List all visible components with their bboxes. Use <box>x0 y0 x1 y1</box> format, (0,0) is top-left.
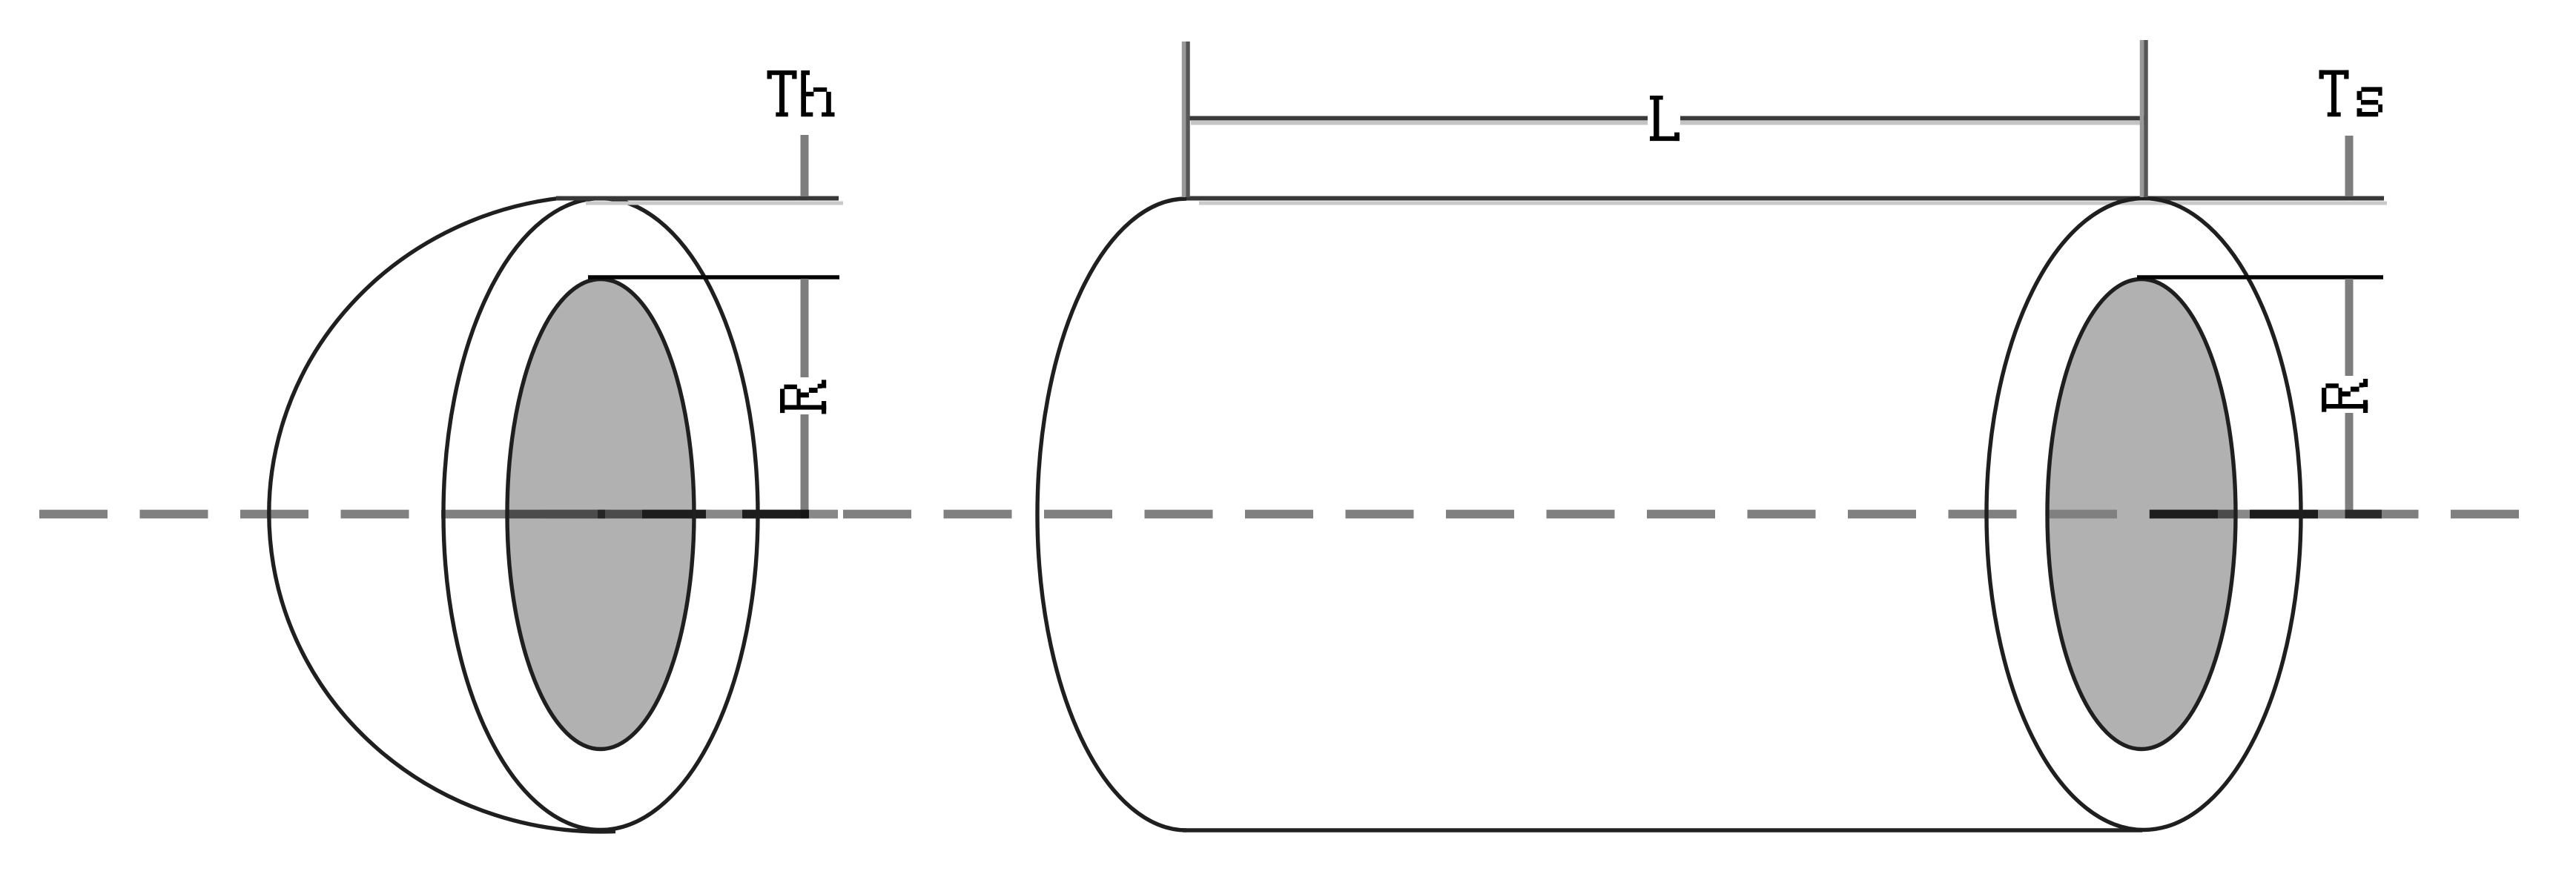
R dimension line (vertical, left figure, above label) <box>801 279 809 377</box>
hemisphere silhouette arc <box>269 198 615 832</box>
centerline black dash 2 (left figure) <box>742 510 805 519</box>
L witness line right (dark half) <box>2144 40 2148 197</box>
R dimension line (vertical, right figure, above label) <box>2345 279 2354 376</box>
centerline (dashed axis) <box>39 510 2519 519</box>
centerline black dash 1 (left figure) <box>642 510 706 519</box>
L witness line left (light half) <box>1182 42 1186 197</box>
Ts tick (vertical, right figure) <box>2345 136 2354 196</box>
R dimension line (vertical, left figure, below label) <box>801 414 809 518</box>
cylinder top line <box>1186 196 2384 201</box>
Th dimension reference line (top, left figure) <box>556 196 839 201</box>
L dimension line (right segment) <box>1680 116 2144 121</box>
hemisphere rim outer ellipse <box>443 199 758 830</box>
centerline dark blip at hemisphere center <box>598 510 605 519</box>
Th tick (vertical, left figure) <box>801 135 809 196</box>
dark centerline segment right of R line (right figure) <box>2345 510 2382 519</box>
L dimension line light echo (left) <box>1191 121 1648 125</box>
R dimension line (vertical, right figure, below label) <box>2345 413 2354 518</box>
dark crossing square at left R line <box>801 510 810 519</box>
L dimension line light echo (right) <box>1680 121 2146 125</box>
centerline black dash 1 (right figure) <box>2150 510 2218 519</box>
centerline gray tail right of R line (left figure) <box>809 510 838 519</box>
inner-surface reference line (left figure) <box>588 275 839 279</box>
centerline dark solid segment over cylinder core <box>2218 510 2236 519</box>
L witness line left (dark half) <box>1186 42 1190 197</box>
cylinder rim outer ellipse <box>1987 199 2301 830</box>
label Ts <box>2319 70 2383 117</box>
label L <box>1650 96 1680 141</box>
Th reference line light echo <box>586 202 843 205</box>
cylinder inner ellipse outline <box>2047 279 2236 749</box>
centerline gray solid segment (left figure) <box>706 510 742 519</box>
gray core of hemisphere (filled inner ellipse, left figure) <box>507 279 694 749</box>
label Th <box>767 70 835 116</box>
centerline dark solid segment over hemisphere core <box>509 510 642 519</box>
label R (left, rotated 90 cw) <box>780 380 826 414</box>
label R (right, rotated 90 cw) <box>2322 379 2368 413</box>
L dimension line (left segment) <box>1186 116 1648 121</box>
cylinder bottom line <box>1183 828 2142 832</box>
centerline gray solid segment 2 (right figure) <box>2318 510 2345 519</box>
centerline gray solid segment (right figure) <box>2236 510 2250 519</box>
hemisphere inner ellipse outline <box>507 279 694 749</box>
cylinder left end arc <box>1037 199 1186 830</box>
L witness line right (light half) <box>2140 40 2144 197</box>
centerline black dash 2 (right figure) <box>2250 510 2318 519</box>
inner-surface reference line (right figure) <box>2137 275 2383 279</box>
cylinder top line light echo <box>1199 202 2387 205</box>
gray core of cylinder (filled inner ellipse, right figure) <box>2047 279 2236 749</box>
